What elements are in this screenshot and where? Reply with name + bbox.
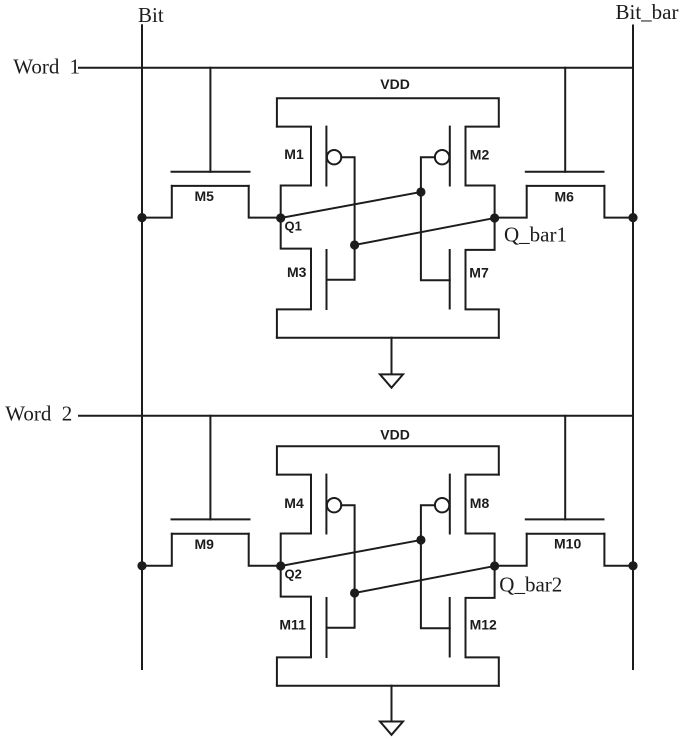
node Q_bar2 junction dot — [490, 561, 499, 570]
junction dot bit_bar/M10 — [628, 561, 637, 570]
svg-text:M4: M4 — [284, 495, 304, 511]
bit line wire — [141, 25, 143, 669]
svg-text:M6: M6 — [555, 189, 575, 205]
svg-text:Q1: Q1 — [285, 219, 302, 234]
svg-text:Bit_bar: Bit_bar — [616, 0, 679, 24]
node Q2 junction dot — [276, 561, 285, 570]
svg-text:M10: M10 — [554, 536, 581, 552]
ground symbol cell 2 — [380, 686, 403, 735]
word line 2 wire — [79, 415, 633, 417]
svg-text:Q_bar2: Q_bar2 — [499, 573, 562, 597]
ground rail cell 1 (wire) — [277, 337, 499, 339]
access nmos M6 — [495, 68, 633, 218]
nmos M7 — [450, 218, 499, 338]
cross-couple wire Q2 to M8/M12 gate — [281, 540, 421, 566]
svg-text:M11: M11 — [279, 617, 306, 633]
nmos M3 — [277, 218, 327, 338]
access nmos M10 — [495, 416, 633, 566]
cross-couple wire M1/M3 gate to Q_bar1 — [355, 218, 495, 245]
pmos M8 — [435, 475, 499, 566]
access nmos M9 — [142, 416, 281, 566]
pmos M4 — [277, 475, 341, 566]
junction dot M8/M12 gate net — [416, 535, 425, 544]
svg-text:M1: M1 — [284, 146, 304, 162]
svg-text:M3: M3 — [287, 264, 307, 280]
pmos M2 — [435, 127, 499, 218]
access nmos M5 — [142, 68, 281, 218]
cross-couple wire Q1 to M2/M7 gate — [281, 192, 421, 218]
wire M2/M7 gate net — [421, 157, 450, 280]
svg-text:M12: M12 — [470, 617, 497, 633]
svg-text:M7: M7 — [469, 265, 489, 281]
svg-text:Word1: Word1 — [13, 55, 80, 79]
svg-text:Q_bar1: Q_bar1 — [504, 223, 567, 247]
bit_bar line wire — [632, 26, 634, 670]
svg-text:VDD: VDD — [380, 427, 410, 443]
node Q_bar1 junction dot — [490, 213, 499, 222]
wire M8/M12 gate net — [421, 505, 450, 628]
svg-text:Q2: Q2 — [285, 567, 302, 582]
nmos M12 — [450, 566, 499, 686]
nmos M11 — [277, 566, 327, 686]
junction dot bit/M5 — [137, 213, 146, 222]
svg-text:Bit: Bit — [138, 3, 164, 27]
junction dot M2/M7 gate net — [416, 187, 425, 196]
junction dot M1/M3 gate net — [350, 240, 359, 249]
word line 1 wire — [79, 67, 633, 69]
junction dot bit_bar/M6 — [628, 213, 637, 222]
VDD rail cell 2 (wire) — [277, 446, 499, 474]
junction dot bit/M9 — [137, 561, 146, 570]
svg-text:M5: M5 — [195, 188, 215, 204]
svg-text:Word2: Word2 — [5, 402, 72, 426]
node Q1 junction dot — [276, 213, 285, 222]
svg-text:VDD: VDD — [380, 76, 410, 92]
wire M4/M11 gate net — [327, 505, 355, 628]
ground symbol cell 1 — [380, 338, 403, 388]
svg-text:M2: M2 — [470, 147, 490, 163]
svg-text:M9: M9 — [195, 536, 215, 552]
VDD rail cell 1 (wire) — [277, 98, 499, 126]
junction dot M4/M11 gate net — [350, 588, 359, 597]
wire M1/M3 gate net — [327, 157, 355, 280]
cross-couple wire M4/M11 gate to Q_bar2 — [355, 566, 495, 593]
pmos M1 — [277, 127, 341, 218]
ground rail cell 2 (wire) — [277, 685, 499, 687]
svg-text:M8: M8 — [470, 495, 490, 511]
